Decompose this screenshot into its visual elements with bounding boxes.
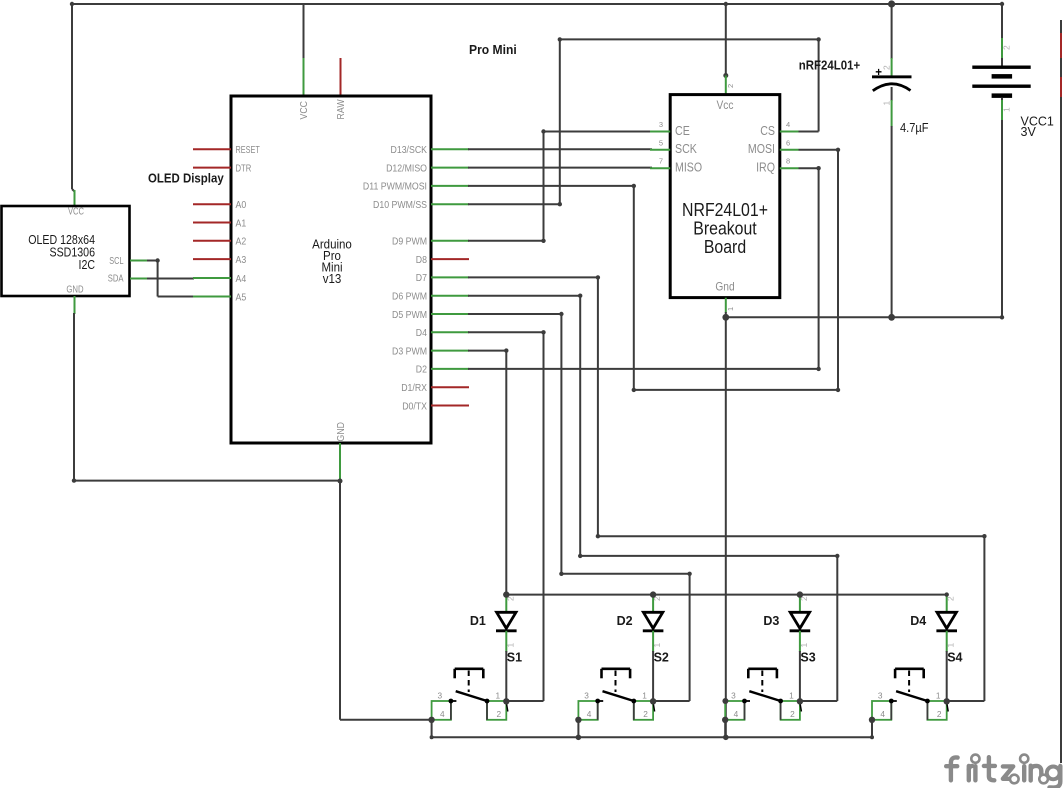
node S2 pin4 junction <box>575 717 581 723</box>
diode D4 <box>910 595 957 701</box>
svg-text:SDA: SDA <box>108 274 124 285</box>
node rail to OLED corner <box>70 2 74 6</box>
wire OLED GND down <box>73 313 75 481</box>
svg-text:1: 1 <box>1002 107 1012 112</box>
node nRF Gnd junction <box>722 314 729 321</box>
switch S4 pushbutton <box>872 669 948 720</box>
svg-text:4: 4 <box>786 120 790 129</box>
svg-text:IRQ: IRQ <box>756 161 775 175</box>
node diode D3 rail junction <box>797 591 803 597</box>
NRF24L01+ Breakout Board box U3 <box>670 95 780 298</box>
node S2 pin1 junction <box>650 698 656 704</box>
svg-text:4: 4 <box>734 709 739 719</box>
svg-text:MOSI: MOSI <box>748 142 775 156</box>
svg-text:D4: D4 <box>416 328 427 339</box>
svg-text:1: 1 <box>789 691 794 701</box>
svg-text:RAW: RAW <box>336 99 347 119</box>
pin Arduino D10 PWM/SS stub <box>431 203 469 205</box>
fritzing watermark logo <box>946 755 1060 788</box>
node Arduino GND junction <box>338 479 343 484</box>
wire top VCC rail <box>72 3 1002 5</box>
pin OLED SCL stub <box>130 260 148 262</box>
pin Arduino D8 stub <box>431 258 469 260</box>
diode D1 <box>470 595 517 701</box>
svg-text:2: 2 <box>726 84 735 88</box>
svg-text:Gnd: Gnd <box>715 280 734 294</box>
wire D9 PWM to nRF CE <box>468 240 544 242</box>
svg-text:A0: A0 <box>236 200 247 211</box>
svg-text:4.7µF: 4.7µF <box>900 120 929 135</box>
svg-text:S4: S4 <box>947 651 962 665</box>
diode D3 <box>763 595 810 701</box>
svg-text:D1/RX: D1/RX <box>401 383 427 394</box>
svg-text:DTR: DTR <box>236 163 252 174</box>
svg-text:A2: A2 <box>236 237 247 248</box>
wire diode anode rail (to D3 PWM) <box>506 594 946 596</box>
pin Arduino A0 stub <box>193 203 231 205</box>
node diode D4 rail corner <box>945 592 949 596</box>
svg-text:Pro Mini: Pro Mini <box>469 42 517 57</box>
svg-text:VCC: VCC <box>299 101 310 120</box>
svg-text:4: 4 <box>880 709 885 719</box>
OLED 128x64 SSD1306 I2C box U2 <box>2 206 130 296</box>
node S4 pin1 junction <box>944 698 950 704</box>
svg-text:Board: Board <box>704 237 746 257</box>
svg-text:D6 PWM: D6 PWM <box>392 292 427 303</box>
svg-text:D9 PWM: D9 PWM <box>392 237 427 248</box>
svg-text:Vcc: Vcc <box>717 98 734 112</box>
svg-text:A4: A4 <box>236 274 247 285</box>
svg-text:D3 PWM: D3 PWM <box>392 346 427 357</box>
pin Arduino D12/MISO stub <box>431 167 469 169</box>
wire bottom GND rail <box>432 736 872 738</box>
pin Arduino RAW stub (unconnected) <box>340 58 342 96</box>
svg-text:GND: GND <box>66 285 83 296</box>
wire D12/MISO to nRF MISO <box>468 167 652 169</box>
capacitor C1 4.7uF <box>872 4 929 317</box>
svg-text:1: 1 <box>946 643 956 648</box>
svg-text:v13: v13 <box>323 271 342 286</box>
pin nRF CS stub (4) <box>780 131 799 133</box>
node GND rail S2 junction <box>576 735 582 741</box>
svg-text:CE: CE <box>675 124 690 138</box>
svg-text:2: 2 <box>882 65 892 70</box>
svg-text:D12/MISO: D12/MISO <box>386 163 427 174</box>
pin Arduino D4 stub <box>431 331 469 333</box>
svg-text:A1: A1 <box>236 218 247 229</box>
pin Arduino VCC stub <box>303 58 305 96</box>
pin Arduino D2 stub <box>431 368 469 370</box>
svg-text:2: 2 <box>790 709 795 719</box>
pin Arduino A2 stub <box>193 240 231 242</box>
wire nRF Gnd down to S3 <box>725 317 727 737</box>
wire D5 PWM to S2 pin1 <box>468 313 561 315</box>
pin nRF Vcc stub (2) <box>725 76 727 95</box>
svg-text:3V: 3V <box>1021 125 1037 139</box>
svg-text:GND: GND <box>336 422 347 442</box>
pin nRF IRQ stub (8) <box>780 167 799 169</box>
node GND rail right corner <box>870 735 874 739</box>
svg-text:5: 5 <box>659 138 663 147</box>
pin nRF SCK stub (5) <box>650 149 670 151</box>
svg-text:VCC: VCC <box>68 207 84 218</box>
pin Arduino D11 PWM/MOSI stub <box>431 185 469 187</box>
node S3 pin1 junction <box>797 698 803 704</box>
svg-text:D1: D1 <box>470 614 486 628</box>
wire nRF Gnd to GND net <box>725 312 727 317</box>
wire Arduino GND down to switches <box>339 481 341 720</box>
svg-text:RESET: RESET <box>236 145 261 156</box>
wire S4 pin4 to GND rail <box>871 720 873 738</box>
pin Arduino A3 stub <box>193 258 231 260</box>
svg-text:2: 2 <box>643 709 648 719</box>
Arduino Pro Mini v13 box U1 <box>231 96 431 443</box>
pin OLED GND stub <box>74 296 76 314</box>
svg-text:NRF24L01+: NRF24L01+ <box>682 200 768 220</box>
pin Arduino A1 stub <box>193 222 231 224</box>
svg-text:8: 8 <box>786 157 790 166</box>
svg-text:S3: S3 <box>800 651 815 665</box>
pin Arduino D0/TX stub <box>431 405 469 407</box>
svg-text:D7: D7 <box>416 273 427 284</box>
pin Arduino GND stub <box>339 443 341 481</box>
wire SDA to A4 <box>147 278 194 280</box>
switch S1 pushbutton <box>432 669 508 720</box>
pin Arduino DTR stub <box>193 167 231 169</box>
wire S3 pin4 to GND rail <box>724 720 726 738</box>
svg-text:SCK: SCK <box>675 142 697 156</box>
node S1 pin1 junction <box>503 698 509 704</box>
node S1 pin4 junction <box>428 717 434 723</box>
pin OLED VCC stub <box>74 190 76 206</box>
node SCL wire bend <box>155 258 159 262</box>
svg-text:1: 1 <box>726 307 735 311</box>
node diode D2 rail junction <box>650 591 656 597</box>
svg-text:1: 1 <box>882 101 892 106</box>
svg-text:2: 2 <box>497 709 502 719</box>
node GND rail left corner <box>430 735 434 739</box>
svg-text:OLED Display: OLED Display <box>148 171 224 186</box>
battery VCC1 3V <box>972 4 1054 317</box>
wire GND to capacitor/battery <box>726 316 1002 318</box>
wire D11 PWM/MOSI to nRF MOSI <box>468 185 634 187</box>
svg-text:nRF24L01+: nRF24L01+ <box>799 58 861 73</box>
wire D10 PWM/SS to nRF CS <box>468 203 560 205</box>
svg-text:2: 2 <box>1002 45 1012 50</box>
svg-text:I2C: I2C <box>79 258 96 272</box>
pin Arduino D7 stub <box>431 276 469 278</box>
svg-text:SCL: SCL <box>109 256 124 267</box>
svg-text:CS: CS <box>760 124 775 138</box>
wire S2 pin4 to GND rail <box>577 720 579 738</box>
node S3 pin4 junction <box>722 717 728 723</box>
pin OLED SDA stub <box>130 278 148 280</box>
svg-text:D11 PWM/MOSI: D11 PWM/MOSI <box>363 182 427 193</box>
svg-text:MISO: MISO <box>675 161 702 175</box>
pin nRF Gnd stub (1) <box>725 298 727 313</box>
svg-text:S1: S1 <box>507 651 522 665</box>
svg-text:D0/TX: D0/TX <box>402 401 427 412</box>
pin nRF MISO stub (7) <box>650 167 670 169</box>
switch S2 pushbutton <box>578 669 654 720</box>
node capacitor GND junction <box>888 314 895 321</box>
svg-text:1: 1 <box>652 643 662 648</box>
svg-text:2: 2 <box>937 709 942 719</box>
svg-text:A3: A3 <box>236 255 247 266</box>
wire D3 PWM to diode rail <box>468 350 506 352</box>
node OLED GND corner <box>72 478 76 482</box>
svg-text:1: 1 <box>496 691 501 701</box>
svg-text:3: 3 <box>659 120 663 129</box>
svg-text:D3: D3 <box>763 614 779 628</box>
svg-text:D2: D2 <box>617 614 633 628</box>
pin nRF MOSI stub (6) <box>780 149 799 151</box>
svg-text:3: 3 <box>878 691 883 701</box>
wire OLED VCC to top rail <box>71 4 73 189</box>
wire SCL to A5 (bend at 157.6) <box>147 260 158 262</box>
pin Arduino A5 stub <box>193 296 231 298</box>
svg-text:1: 1 <box>642 691 647 701</box>
svg-text:1: 1 <box>936 691 941 701</box>
node rail/capacitor junction <box>888 0 895 7</box>
pin Arduino D9 PWM stub <box>431 240 469 242</box>
node GND rail S3/nRF junction <box>723 735 729 741</box>
pin Arduino A4 stub <box>193 277 231 279</box>
svg-text:D10 PWM/SS: D10 PWM/SS <box>373 200 427 211</box>
pin Arduino D5 PWM stub <box>431 313 469 315</box>
diode D2 <box>617 595 664 701</box>
node rail to battery corner <box>1000 2 1004 6</box>
wire GND horizontal to Arduino GND <box>74 480 340 482</box>
svg-text:7: 7 <box>659 157 663 166</box>
pin Arduino D13/SCK stub <box>431 148 469 150</box>
node battery GND corner <box>1000 315 1004 319</box>
svg-text:A5: A5 <box>236 292 247 303</box>
svg-text:D13/SCK: D13/SCK <box>391 145 428 156</box>
wire S1 pin4 to GND rail <box>431 720 433 738</box>
pin Arduino D3 PWM stub <box>431 350 469 352</box>
clipped component at right edge <box>1060 20 1062 33</box>
switch S3 pushbutton <box>725 669 801 720</box>
svg-text:3: 3 <box>731 691 736 701</box>
wire D13/SCK to nRF SCK <box>468 148 652 150</box>
node S4 pin4 junction <box>869 717 875 723</box>
wire Arduino VCC to top rail <box>303 4 305 59</box>
pin Arduino D6 PWM stub <box>431 295 469 297</box>
node S3 pin3 junction with nRF Gnd wire <box>722 698 728 704</box>
svg-text:D8: D8 <box>416 255 427 266</box>
svg-text:4: 4 <box>440 709 445 719</box>
wire D6 PWM to S3 pin1 <box>468 295 580 297</box>
node nRF Vcc wire end <box>723 73 728 78</box>
pin nRF CE stub (3) <box>650 131 670 133</box>
node rail/nRF Vcc junction <box>724 2 728 6</box>
svg-text:4: 4 <box>587 709 592 719</box>
wire D7 to S4 pin1 <box>468 276 598 278</box>
wire D4 to S1 pin1 <box>468 331 544 333</box>
wire D2 to nRF IRQ <box>468 368 819 370</box>
svg-text:D5 PWM: D5 PWM <box>392 310 427 321</box>
svg-text:1: 1 <box>799 643 809 648</box>
svg-text:Breakout: Breakout <box>693 219 756 239</box>
svg-text:D4: D4 <box>910 614 926 628</box>
node diode D1 rail junction <box>503 591 509 597</box>
svg-text:3: 3 <box>438 691 443 701</box>
pin Arduino D1/RX stub <box>431 386 469 388</box>
svg-text:1: 1 <box>505 643 515 648</box>
pin Arduino RESET stub <box>193 148 231 150</box>
svg-text:S2: S2 <box>654 651 669 665</box>
wire nRF Vcc to top rail <box>725 4 727 76</box>
svg-text:3: 3 <box>584 691 589 701</box>
svg-text:2: 2 <box>946 596 956 601</box>
svg-text:D2: D2 <box>416 365 427 376</box>
svg-text:6: 6 <box>786 138 790 147</box>
